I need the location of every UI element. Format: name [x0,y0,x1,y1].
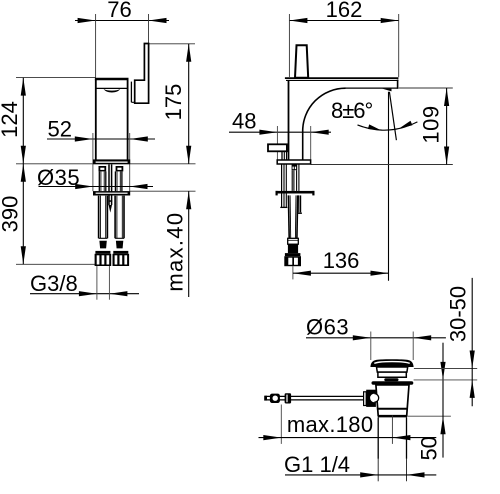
dimension 175 up arrow [186,44,191,62]
supply pipe joint left [99,166,107,171]
drain plug cap [370,359,413,367]
hose crimp ferrule left [99,241,106,249]
mounting washer front [93,191,130,195]
extension line valve bottom [407,415,451,417]
dimension max.40 line [188,191,190,297]
svg-text:76: 76 [107,0,131,22]
extension line washer top right [130,190,196,192]
ball joint [364,390,379,407]
handle pivot line front [131,82,134,103]
extension line G3/8 nut bottom left [16,263,95,265]
drain plug skirt [377,367,408,377]
dimension 124 label [0,101,22,138]
extension line G1 1/4 right [406,459,408,482]
dimension 124 up arrow [21,78,26,96]
base flange front [93,159,130,164]
tailpipe right edge [406,417,408,458]
dimension 50 line [442,343,444,458]
svg-text:G3/8: G3/8 [30,271,78,296]
faucet body side: back edge [302,131,304,160]
angle arc left arrow [368,124,381,130]
second hose end side [297,195,302,213]
dimension Ø63 line [306,337,446,339]
extension line 162 left [288,14,290,77]
dimension G3/8 label [30,271,78,296]
extension line cap bottom right [414,368,477,370]
svg-text:136: 136 [323,248,360,273]
G3/8 nut side [284,253,301,266]
dimension 109 line [446,88,448,165]
dimension 109 up arrow [444,88,449,106]
hose crimp side [288,238,299,253]
dimension Ø35 left arrow [75,184,93,189]
angle dimension arc [358,122,418,130]
extension line Ø63 right [412,332,414,361]
dimension 390 line [22,164,24,264]
dimension 50 down arrow [440,362,445,380]
dimension 390 down arrow [21,246,26,264]
dimension 136 line [293,272,389,274]
aerator outlet wedge [382,89,391,92]
dimension 76 label [107,0,131,22]
extension line 76 right [148,14,150,43]
extension line G3/8 thread right [108,266,110,300]
spout fillet curve [303,88,346,131]
dimension 109 down arrow [444,147,449,165]
extension line flange left [92,133,94,191]
extension line body top left [16,77,96,79]
dimension Ø63 label [306,314,349,339]
svg-text:8±6°: 8±6° [331,98,373,123]
svg-text:G1 1/4: G1 1/4 [284,452,350,477]
faucet body side: front edge [288,80,290,160]
dimension G1 1/4 label [284,452,350,477]
dimension 52 label [48,117,72,142]
dimension 136 right arrow [371,271,389,276]
dimension 50 up arrow [440,416,445,434]
mounting washer side [276,191,315,196]
mounting stud [108,164,112,212]
dimension 162 left arrow [289,18,307,23]
rod adjuster collar [285,393,292,403]
supply pipe joint right [116,166,124,171]
drain plug seal bump [384,378,398,381]
dimension max.180 left arrow [263,435,281,440]
dimension 124 line [22,78,24,164]
dimension max.180 label [287,412,373,437]
water stream plumb line [388,92,390,281]
G3/8 nut right [113,251,130,266]
pull rod below deck [280,164,287,207]
spout underside [346,87,399,89]
extension line aerator level [399,87,453,89]
dimension Ø35 label [37,165,80,190]
dimension 109 label [418,105,443,143]
dimension G1 1/4 line [285,474,436,476]
svg-text:48: 48 [232,109,256,134]
dimension max.40 up arrow [186,191,191,209]
extension line max.180 left [280,405,282,444]
svg-text:175: 175 [161,84,186,121]
handle lever front [135,44,149,104]
tailpipe left edge [377,417,379,458]
dimension 175 label [161,84,186,121]
dimension 48 left arrow [259,130,277,135]
dimension 48 right arrow [311,130,329,135]
dimension 52 left arrow [75,136,93,141]
drain center line [391,415,393,444]
svg-text:124: 124 [0,101,22,138]
dimension 52 line [47,138,155,140]
dimension 52 right arrow [130,136,148,141]
dimension 48 line [229,131,331,133]
dimension Ø63 left arrow [353,335,371,340]
extension line flange right [129,133,131,191]
dimension 76 line [75,20,169,22]
spout tip end [397,80,399,89]
supply hose right [115,196,124,239]
drain pull rod upper [282,151,287,160]
svg-text:30-50: 30-50 [446,286,471,342]
drain pull rod knob [268,144,287,151]
spout beam top [285,78,399,80]
faucet body front: cap parting line [96,87,128,89]
faucet body front: cap shadow arc [104,89,121,92]
dimension 50 label [416,436,441,460]
extension line deck level left [16,163,196,165]
rod clevis [270,394,280,403]
dimension 175 down arrow [186,146,191,164]
dimension 76 right arrow [149,18,167,23]
faucet body front: top edge [95,78,129,81]
svg-text:109: 109 [418,105,443,143]
dimension 136 left arrow [293,271,311,276]
dimension 162 right arrow [381,18,399,23]
supply pipe right [115,171,122,191]
dimension 136 label [323,248,360,273]
dimension 162 label [326,0,363,22]
dimension 30-50 up arrow [470,380,475,398]
svg-text:52: 52 [48,117,72,142]
dimension max.180 line [259,437,437,439]
svg-text:Ø63: Ø63 [306,314,349,339]
dimension Ø35 line [39,186,154,188]
dimension Ø35 right arrow [130,184,148,189]
dimension 48 label [232,109,256,134]
svg-text:390: 390 [0,196,22,233]
angle arc right arrow [400,121,413,128]
supply hose side [288,195,297,238]
dimension 162 line [289,20,398,22]
extension line G1 1/4 left [377,459,379,482]
dimension 30-50 label [446,286,471,342]
supply hose left [99,196,108,239]
dimension 175 line [188,44,190,164]
dimension 30-50 down arrow [470,351,475,369]
dimension G3/8 right arrow [109,291,127,296]
extension line disc top right [414,379,478,381]
dimension G1 1/4 left arrow [360,472,378,477]
svg-text:50: 50 [416,436,441,460]
svg-text:162: 162 [326,0,363,22]
drain valve body [376,385,409,417]
faucet body front: right edge [127,79,129,160]
hose crimp ferrule right [116,241,123,249]
G3/8 nut left [95,251,112,266]
dimension G1 1/4 right arrow [407,472,425,477]
drain seat disc [372,381,414,385]
water stream angled line [389,92,396,140]
extension line 48 left [276,126,278,164]
supply pipe left [99,171,106,191]
extension line 162 right [398,14,400,77]
dimension 390 up arrow [21,164,26,182]
dimension 8±6° label [331,98,373,123]
base flange side [277,160,310,164]
dimension max.40 label [162,212,187,292]
dimension G3/8 line [30,293,139,295]
extension line 76 left [95,14,97,79]
svg-text:max.180: max.180 [287,412,373,437]
dimension G3/8 left arrow [79,291,97,296]
extension line deck level right view [311,164,453,166]
dimension max.180 right arrow [392,435,410,440]
extension line handle top [149,43,196,45]
dimension 30-50 line [471,278,473,406]
hose lines above washer side [292,164,299,191]
handle lever side [295,45,308,78]
dimension 390 label [0,196,22,233]
faucet body front: left edge [95,79,97,160]
dimension Ø63 right arrow [413,335,431,340]
extension line 48 right [310,126,312,164]
extension line 136 left [292,266,294,279]
extension line G3/8 thread left [96,266,98,300]
dimension 76 left arrow [78,18,96,23]
dimension 124 down arrow [21,146,26,164]
pull rod horizontal [264,396,364,401]
extension line Ø63 left [370,332,372,361]
svg-text:max.40: max.40 [162,212,187,292]
